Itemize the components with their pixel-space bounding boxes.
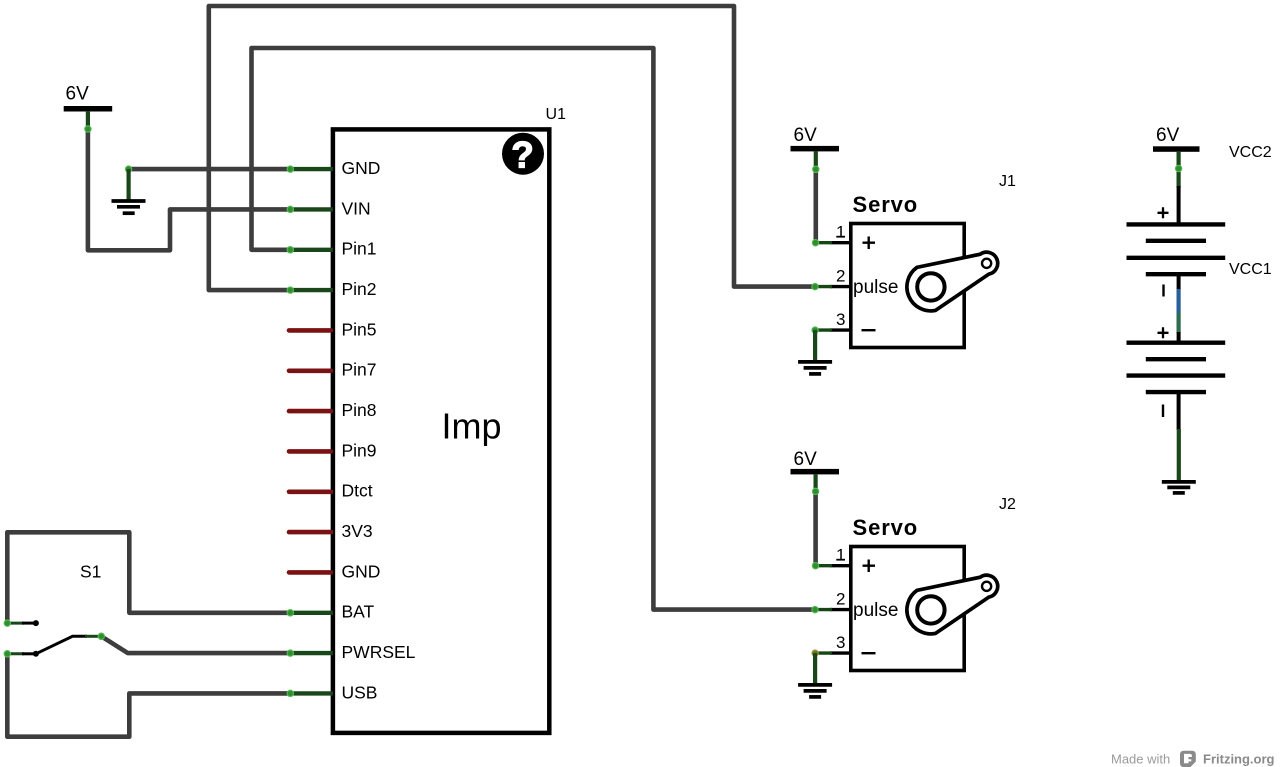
- plus marker: [1158, 327, 1169, 338]
- battery VCC1: [1127, 261, 1272, 430]
- svg-text:Dtct: Dtct: [342, 481, 373, 501]
- battery VCC2: [1127, 144, 1272, 297]
- J2 label plus: [863, 560, 876, 573]
- wire net Pin1 to J2.pulse: [252, 48, 816, 610]
- J2 pin 3: [830, 651, 849, 654]
- power symbol 6V PWR1 (top left): [64, 84, 112, 133]
- plates: [1127, 341, 1226, 345]
- servo J1: [812, 173, 1016, 348]
- svg-text:S1: S1: [80, 562, 101, 582]
- svg-text:VIN: VIN: [342, 198, 371, 218]
- power symbol 6V PWR4 (battery): [1153, 125, 1200, 188]
- svg-text:2: 2: [836, 267, 845, 286]
- svg-text:pulse: pulse: [853, 600, 898, 621]
- svg-text:VCC1: VCC1: [1229, 261, 1272, 278]
- U1 pin USB: [287, 682, 377, 702]
- svg-text:J1: J1: [999, 173, 1016, 190]
- U1 pin Pin7 (unconnected): [289, 360, 377, 380]
- ground symbol GND4 (battery): [1162, 429, 1196, 493]
- plus marker: [1158, 207, 1169, 218]
- svg-text:GND: GND: [342, 158, 381, 178]
- J1 pin 2: [830, 285, 849, 288]
- pin bottom: [7, 652, 24, 655]
- svg-text:Pin8: Pin8: [342, 400, 377, 420]
- plates: [1127, 222, 1226, 226]
- svg-text:2: 2: [836, 590, 845, 609]
- J2 pin 2: [830, 608, 849, 611]
- J1 pin 1: [830, 241, 849, 244]
- svg-text:Pin1: Pin1: [342, 239, 377, 259]
- svg-text:Pin7: Pin7: [342, 360, 377, 380]
- svg-text:Fritzing.org: Fritzing.org: [1203, 752, 1275, 767]
- wire net between battery cells (blue/green): [1177, 274, 1181, 343]
- wire net GND (ground GND1 to U1.GND): [129, 167, 290, 172]
- J1 label minus: [862, 329, 876, 331]
- U1 pin BAT: [287, 602, 374, 622]
- J1 servo horn: [907, 252, 998, 311]
- J2 servo horn: [907, 575, 998, 634]
- J1 label plus: [863, 237, 876, 250]
- svg-text:1: 1: [836, 223, 845, 242]
- lever: [36, 636, 87, 654]
- svg-text:3V3: 3V3: [342, 521, 373, 541]
- svg-text:VCC2: VCC2: [1229, 144, 1272, 161]
- svg-text:Pin9: Pin9: [342, 440, 377, 460]
- U1 pin GND2 (unconnected): [289, 561, 380, 581]
- wire net USB (S1 bottom to U1.USB): [7, 655, 290, 737]
- power symbol 6V PWR3 (J2): [791, 449, 840, 495]
- ground symbol GND1 (top left): [112, 166, 146, 213]
- wire net PWRSEL (S1 common to U1.PWRSEL): [101, 636, 290, 653]
- wire net BAT (S1 top to U1.BAT): [7, 532, 290, 621]
- U1 pin Pin2: [287, 279, 376, 299]
- svg-text:3: 3: [836, 633, 845, 652]
- svg-text:Servo: Servo: [853, 515, 919, 540]
- svg-text:PWRSEL: PWRSEL: [342, 642, 416, 662]
- U1 pin Pin5 (unconnected): [289, 319, 377, 339]
- svg-text:U1: U1: [546, 106, 567, 123]
- U1 pin 3V3 (unconnected): [289, 521, 373, 541]
- ground symbol GND3 (J2): [798, 653, 832, 697]
- ground symbol GND2 (J1): [798, 330, 832, 374]
- svg-text:1: 1: [836, 546, 845, 565]
- U1 help badge (question mark): [502, 133, 544, 176]
- pin top: [7, 622, 24, 625]
- wire net Pin2 to J1.pulse: [209, 6, 815, 290]
- svg-text:Imp: Imp: [441, 405, 501, 446]
- J2 label minus: [862, 652, 876, 654]
- svg-text:pulse: pulse: [853, 277, 898, 298]
- J1 pin 3: [830, 328, 849, 331]
- U1 pin GND (pin line + label): [287, 158, 380, 178]
- wire net 6V to J1 pin1: [813, 169, 818, 242]
- svg-text:3: 3: [836, 310, 845, 329]
- svg-text:Servo: Servo: [853, 192, 919, 217]
- svg-text:J2: J2: [999, 496, 1016, 513]
- servo J2: [812, 496, 1016, 671]
- svg-text:Pin5: Pin5: [342, 319, 377, 339]
- svg-text:Made with: Made with: [1111, 752, 1170, 767]
- U1 pin Pin1: [287, 239, 376, 259]
- svg-text:6V: 6V: [794, 449, 818, 470]
- power symbol 6V PWR2 (J1): [791, 125, 840, 172]
- svg-text:?: ?: [511, 134, 534, 175]
- svg-text:6V: 6V: [66, 84, 90, 105]
- wire net 6V to J2 pin1: [813, 491, 818, 565]
- svg-text:GND: GND: [342, 561, 381, 581]
- svg-text:6V: 6V: [1156, 125, 1180, 146]
- footer: Made with Fritzing.org: [1111, 751, 1275, 767]
- U1 pin VIN: [287, 198, 371, 218]
- svg-text:Pin2: Pin2: [342, 279, 377, 299]
- minus marker: [1162, 405, 1164, 418]
- U1 pin Dtct (unconnected): [289, 481, 373, 501]
- U1 pin Pin9 (unconnected): [289, 440, 377, 460]
- Fritzing logo icon: [1180, 751, 1196, 767]
- wire net VIN (6V PWR1 to U1.VIN): [88, 129, 290, 250]
- IC U1 Imp: [333, 106, 566, 733]
- svg-text:BAT: BAT: [342, 602, 375, 622]
- U1 pin Pin8 (unconnected): [289, 400, 377, 420]
- minus marker: [1162, 285, 1164, 297]
- switch S1: [4, 562, 104, 658]
- U1 pin PWRSEL: [287, 642, 416, 662]
- J2 pin 1: [830, 564, 849, 567]
- svg-text:6V: 6V: [794, 125, 818, 146]
- svg-text:USB: USB: [342, 682, 378, 702]
